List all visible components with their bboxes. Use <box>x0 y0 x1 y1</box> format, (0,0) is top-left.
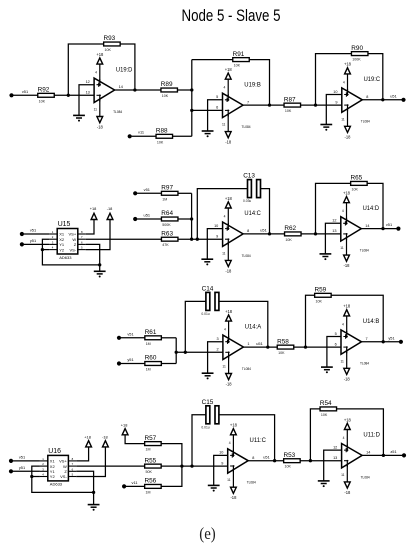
svg-text:10K: 10K <box>278 351 285 355</box>
wire feedback up to C15 <box>192 415 206 466</box>
junction R93/output <box>133 88 136 91</box>
-18 arrow U14:B <box>344 368 350 374</box>
junction R91/output <box>268 103 271 106</box>
svg-text:U16: U16 <box>48 448 61 455</box>
junction X2/Y2 tie U16 <box>30 475 33 478</box>
wire U19:C non-inverting input to ground <box>326 95 342 125</box>
svg-text:R56: R56 <box>145 478 157 485</box>
resistor R53 <box>284 452 301 469</box>
svg-text:8: 8 <box>247 229 249 233</box>
wire ground bus to ground <box>99 265 101 271</box>
terminal net v51 input R61 <box>117 331 134 340</box>
+18 arrow U14:A <box>226 315 232 321</box>
svg-text:U14:C: U14:C <box>244 210 261 217</box>
svg-text:TL084: TL084 <box>242 254 251 258</box>
wire U14:B output to terminal <box>362 341 401 343</box>
wire feedback up to C13 <box>197 189 247 240</box>
wire node to R91 <box>192 59 233 61</box>
terminal net v51 input row1 <box>9 89 28 97</box>
wire U19:D non-inverting input to ground <box>79 85 94 116</box>
wire v11 to R88 <box>132 135 156 137</box>
wire U14:A output to R58 <box>243 346 277 348</box>
wire U11:D output to terminal <box>362 454 404 456</box>
svg-text:14: 14 <box>365 224 369 228</box>
svg-text:1M: 1M <box>146 368 151 372</box>
svg-text:10K: 10K <box>285 465 292 469</box>
svg-text:4: 4 <box>224 86 226 90</box>
wire R91 to U19:B output <box>249 60 269 106</box>
svg-text:C14: C14 <box>202 285 214 292</box>
svg-text:0.01u: 0.01u <box>201 312 209 316</box>
svg-text:10: 10 <box>333 90 337 94</box>
op-amp U14:C <box>223 208 244 260</box>
svg-text:12: 12 <box>86 80 90 84</box>
terminal net v11 input R56 <box>122 480 137 489</box>
resistor R61 <box>145 329 162 346</box>
wire R88 to node <box>173 135 192 137</box>
wire U15 Z to ground bus <box>86 244 100 265</box>
wire U16 VS+ to +18 <box>76 445 88 461</box>
+18 arrow U14:C <box>225 202 231 208</box>
svg-text:11: 11 <box>94 108 98 112</box>
resistor R97 <box>161 185 178 202</box>
svg-text:U19:C: U19:C <box>364 76 381 83</box>
ground at U19:C + input <box>320 125 332 131</box>
resistor R56 <box>145 478 162 495</box>
svg-text:9: 9 <box>221 461 223 465</box>
wire R92 to U19:D inverting input <box>54 94 94 96</box>
svg-text:Y2: Y2 <box>59 247 65 252</box>
op-amp U14:B pin numbers <box>335 322 368 363</box>
wire R90 to U19:C output <box>368 54 383 100</box>
svg-text:y51: y51 <box>19 465 25 470</box>
svg-text:-18: -18 <box>226 382 233 387</box>
svg-text:v11: v11 <box>132 480 138 485</box>
svg-text:7: 7 <box>366 337 368 341</box>
wire v51 to R97 <box>137 192 161 194</box>
resistor R55 <box>145 457 162 474</box>
svg-text:TL084: TL084 <box>361 120 370 124</box>
wire U15 X2 to ground bus <box>42 239 99 265</box>
svg-text:-18: -18 <box>102 434 108 439</box>
svg-text:9: 9 <box>335 100 337 104</box>
svg-text:50K: 50K <box>146 470 153 474</box>
wire R89 to node <box>178 89 192 91</box>
wire feedback up to C14 <box>185 301 206 352</box>
resistor R91 <box>233 51 250 68</box>
svg-text:7: 7 <box>247 100 249 104</box>
ground at U14:D + input <box>320 254 332 260</box>
junction feedback C13 <box>196 238 199 241</box>
svg-text:TL084: TL084 <box>360 249 369 253</box>
svg-text:R59: R59 <box>315 287 327 294</box>
svg-text:R53: R53 <box>284 452 296 459</box>
svg-text:4: 4 <box>342 209 344 213</box>
wire U19:B output to R87 <box>243 104 284 106</box>
svg-text:1M: 1M <box>146 490 151 494</box>
resistor R63 <box>161 230 178 247</box>
svg-text:11: 11 <box>222 123 226 127</box>
terminal net v51 input U16 X1 <box>9 455 25 464</box>
svg-text:U14:A: U14:A <box>245 323 262 330</box>
svg-text:9: 9 <box>216 235 218 239</box>
junction C15/output <box>273 459 276 462</box>
ground at U11:D + input <box>318 481 330 487</box>
svg-text:U19:B: U19:B <box>244 81 261 88</box>
svg-text:R87: R87 <box>284 96 296 103</box>
svg-text:11: 11 <box>341 117 345 121</box>
+18 arrow U19:D <box>97 58 103 64</box>
svg-text:VS-: VS- <box>60 474 67 479</box>
ground at U14:C + input <box>201 259 213 265</box>
wire U15 Y2 to ground bus <box>42 249 49 251</box>
op-amp U11:D <box>342 430 363 482</box>
resistor R59 <box>315 287 332 304</box>
svg-text:U11:C: U11:C <box>250 437 267 444</box>
capacitor C14 <box>201 285 219 316</box>
wire R65 to U14:D output <box>367 183 383 228</box>
svg-text:3: 3 <box>216 337 218 341</box>
+18 arrow U11:C <box>231 429 237 435</box>
op-amp U19:D <box>94 64 115 116</box>
junction R53/R54 feedback <box>309 459 312 462</box>
+18 supply arrow U15 <box>91 213 97 219</box>
svg-text:TL084: TL084 <box>361 475 370 479</box>
-18 arrow U19:D <box>97 117 103 123</box>
svg-text:v11: v11 <box>138 130 144 135</box>
junction R87/R90 feedback <box>314 103 317 106</box>
svg-text:1M: 1M <box>162 197 167 201</box>
svg-text:500K: 500K <box>162 223 171 227</box>
wire U14:C non-inverting input to ground <box>207 229 222 260</box>
op-amp U19:B <box>223 79 244 131</box>
-18 arrow U19:B <box>225 132 231 138</box>
svg-text:14: 14 <box>119 85 123 89</box>
terminal net v51 input R97 <box>133 187 150 196</box>
+18 supply arrow R57 <box>122 429 128 435</box>
resistor R92 <box>38 87 55 104</box>
wire R55 to U11:C inverting input <box>161 465 228 467</box>
-18 arrow U14:A <box>226 374 232 380</box>
wire U16 Y2 to ground bus <box>32 476 40 478</box>
svg-text:+18: +18 <box>225 309 233 314</box>
svg-text:1M: 1M <box>146 448 151 452</box>
wire U16 VS- to -18 <box>76 445 105 477</box>
wire y51 to R60 <box>121 363 145 365</box>
svg-text:4: 4 <box>224 214 226 218</box>
svg-text:1M: 1M <box>146 342 151 346</box>
svg-text:R63: R63 <box>161 230 173 237</box>
svg-text:U15: U15 <box>58 221 71 228</box>
ground of U15 <box>94 271 106 277</box>
wire v51 to R92 <box>13 94 37 96</box>
wire C15 to U11:C output <box>219 415 275 461</box>
wire U19:B non-inverting input to ground <box>208 100 223 131</box>
junction R62/R65 feedback <box>314 232 317 235</box>
wire feedback up to R90 <box>316 54 352 106</box>
svg-text:12: 12 <box>332 219 336 223</box>
multiplier IC U16 (AD633) <box>40 448 76 487</box>
svg-text:5: 5 <box>216 95 218 99</box>
svg-text:R54: R54 <box>320 400 332 407</box>
wire U14:D non-inverting input to ground <box>325 223 340 254</box>
svg-text:10K: 10K <box>352 187 359 191</box>
svg-text:+18: +18 <box>225 67 233 72</box>
resistor R57 <box>145 435 162 452</box>
svg-text:v51: v51 <box>22 89 28 94</box>
svg-text:4: 4 <box>342 322 344 326</box>
svg-text:R91: R91 <box>233 51 245 58</box>
svg-text:R92: R92 <box>38 87 50 94</box>
wire u51 to R64 <box>137 218 161 220</box>
svg-text:-18: -18 <box>344 490 351 495</box>
svg-text:11: 11 <box>341 473 345 477</box>
svg-text:TL084: TL084 <box>242 367 251 371</box>
-18 arrow U14:C <box>225 260 231 266</box>
svg-text:6: 6 <box>335 342 337 346</box>
svg-text:U14:B: U14:B <box>363 318 380 325</box>
wire R97 to node <box>178 192 192 194</box>
resistor R64 <box>161 210 178 227</box>
svg-text:-18: -18 <box>97 125 104 130</box>
svg-text:u51: u51 <box>144 213 151 218</box>
resistor R54 <box>320 400 337 417</box>
ground of U16 <box>88 505 100 511</box>
terminal net y51 output row3 <box>388 335 403 344</box>
svg-text:Node 5 - Slave 5: Node 5 - Slave 5 <box>182 7 281 25</box>
wire U15 VS+ to +18 <box>86 218 94 235</box>
wire U19:C output to terminal <box>362 99 403 101</box>
terminal net y51 input R60 <box>117 357 134 366</box>
wire U15 W to R63 <box>86 238 162 240</box>
svg-text:u51: u51 <box>256 341 263 346</box>
junction R89/node line <box>190 88 193 91</box>
wire U14:C output to R62 <box>243 233 284 235</box>
ground at U19:B + input <box>202 131 214 137</box>
-18 supply arrow U15 <box>107 213 113 219</box>
svg-text:v51: v51 <box>127 331 133 336</box>
wire ground bus to ground U16 <box>93 492 95 504</box>
svg-text:AD633: AD633 <box>59 255 72 260</box>
svg-text:+18: +18 <box>121 422 128 427</box>
junction R54/output <box>382 454 385 457</box>
junction R63/input node <box>190 238 193 241</box>
svg-text:4: 4 <box>343 436 345 440</box>
resistor R89 <box>161 81 178 98</box>
svg-text:+18: +18 <box>90 206 97 211</box>
svg-text:y51: y51 <box>127 357 133 362</box>
-18 arrow U19:C <box>345 126 351 132</box>
wire R58 to U14:B inverting input <box>294 346 341 348</box>
wire C14 to U14:A output <box>219 301 268 347</box>
svg-text:TL084: TL084 <box>247 481 256 485</box>
op-amp U19:B pin numbers <box>216 86 249 127</box>
svg-text:11: 11 <box>227 478 231 482</box>
wire vertical node line row1 <box>191 60 193 137</box>
+18 supply arrow U16 <box>86 441 92 447</box>
junction node/inverting input row3 <box>175 351 178 354</box>
ground at U11:C + input <box>208 485 220 491</box>
terminal net y51 input U16 Y1 <box>9 465 25 474</box>
wire R53 to U11:D inverting input <box>300 460 341 462</box>
wire R59 to U14:B output <box>331 295 383 342</box>
svg-text:4: 4 <box>95 71 97 75</box>
wire R54 to U11:D output <box>337 409 384 456</box>
svg-text:0.01u: 0.01u <box>201 425 209 429</box>
svg-text:u51: u51 <box>263 454 270 459</box>
svg-text:R58: R58 <box>277 338 289 345</box>
wire U16 Z to ground bus <box>76 471 93 492</box>
terminal net v51 output row2 <box>386 222 401 231</box>
resistor R65 <box>351 175 368 192</box>
op-amp U11:C <box>228 435 249 487</box>
svg-text:5: 5 <box>335 332 337 336</box>
resistor R88 <box>156 128 173 145</box>
svg-text:U11:D: U11:D <box>363 432 380 439</box>
wire feedback up to R59 <box>306 295 315 347</box>
svg-text:10K: 10K <box>316 299 323 303</box>
wire +18 to R57 <box>125 435 145 444</box>
svg-text:+18: +18 <box>343 191 351 196</box>
wire v51 to R61 <box>121 337 145 339</box>
svg-text:v51: v51 <box>144 187 150 192</box>
-18 arrow U11:D <box>344 482 350 488</box>
svg-text:v51: v51 <box>19 455 25 460</box>
terminal net y51 input U15 Y1 <box>20 238 36 246</box>
svg-text:11: 11 <box>340 359 344 363</box>
svg-text:v51: v51 <box>386 222 392 227</box>
-18 arrow U11:C <box>231 487 237 493</box>
ground at U14:A + input <box>202 373 214 379</box>
svg-text:+18: +18 <box>225 196 233 201</box>
+18 arrow U11:D <box>344 423 350 429</box>
svg-text:11: 11 <box>222 365 226 369</box>
wire R61 to node <box>161 337 176 339</box>
svg-text:10K: 10K <box>234 64 241 68</box>
svg-text:y51: y51 <box>30 238 36 243</box>
svg-text:R55: R55 <box>145 457 157 464</box>
svg-text:R97: R97 <box>161 185 173 192</box>
wire U16 W to R55 <box>76 465 144 467</box>
multiplier IC U15 (AD633) <box>49 221 85 260</box>
wire U19:D output to R89 <box>115 89 161 91</box>
svg-text:13: 13 <box>332 229 336 233</box>
svg-text:-18: -18 <box>344 376 351 381</box>
wire U11:D non-inverting input to ground <box>324 450 342 481</box>
wire vertical node line row2 <box>191 193 193 239</box>
svg-text:47K: 47K <box>162 243 169 247</box>
svg-text:2: 2 <box>216 348 218 352</box>
terminal net z51 output row4 <box>390 449 406 458</box>
resistor R62 <box>284 225 301 242</box>
svg-text:-18: -18 <box>225 140 232 145</box>
op-amp U14:A <box>223 321 244 373</box>
svg-text:+18: +18 <box>344 62 352 67</box>
junction R59/output <box>382 340 385 343</box>
ground at U19:D + input <box>73 115 85 121</box>
ground at U14:B + input <box>321 367 333 373</box>
svg-text:+18: +18 <box>230 423 238 428</box>
svg-text:TL084: TL084 <box>113 110 122 114</box>
junction R58/R59 feedback <box>304 345 307 348</box>
svg-text:14: 14 <box>366 451 370 455</box>
wire y51 to U15 Y1 <box>24 243 50 245</box>
junction Z/ground bus U16 <box>92 491 95 494</box>
wire R63 to U14:C inverting input <box>178 238 223 240</box>
svg-text:z51: z51 <box>390 449 396 454</box>
svg-text:+18: +18 <box>96 52 104 57</box>
wire R57 to node <box>161 444 182 467</box>
svg-text:10K: 10K <box>157 140 164 144</box>
svg-text:6: 6 <box>216 106 218 110</box>
junction R65/output <box>381 227 384 230</box>
wire vertical node line row3 <box>175 338 177 364</box>
terminal net v51 input U15 X1 <box>20 228 36 236</box>
svg-text:10: 10 <box>214 224 218 228</box>
resistor R60 <box>145 355 162 372</box>
svg-text:AD633: AD633 <box>50 482 63 487</box>
svg-text:v51: v51 <box>30 228 36 233</box>
svg-text:-18: -18 <box>107 206 113 211</box>
svg-text:8: 8 <box>366 95 368 99</box>
svg-text:C15: C15 <box>202 399 214 406</box>
-18 arrow U14:D <box>344 255 350 261</box>
svg-text:R89: R89 <box>161 81 173 88</box>
svg-text:4: 4 <box>343 80 345 84</box>
op-amp U19:C <box>342 74 363 126</box>
svg-text:TL084: TL084 <box>242 125 251 129</box>
svg-text:y51: y51 <box>388 335 394 340</box>
junction C13/output <box>268 232 271 235</box>
-18 supply arrow U16 <box>103 441 109 447</box>
junction R90/output <box>381 98 384 101</box>
svg-text:100K: 100K <box>352 58 361 62</box>
wire U14:A non-inverting input to ground <box>208 342 223 374</box>
wire node to U19:B inverting input <box>192 109 223 111</box>
svg-text:+18: +18 <box>344 417 352 422</box>
+18 arrow U19:C <box>345 68 351 74</box>
svg-text:-18: -18 <box>230 495 237 500</box>
wire C13 to U14:C output <box>261 189 270 234</box>
junction feedback C15 <box>190 464 193 467</box>
op-amp U14:C pin numbers <box>214 214 249 255</box>
svg-text:4: 4 <box>229 441 231 445</box>
wire U11:C output to R53 <box>248 460 283 462</box>
wire R56 to node <box>161 466 182 486</box>
svg-text:C13: C13 <box>243 173 255 180</box>
wire v51 to U15 X1 <box>24 233 50 235</box>
svg-text:u51: u51 <box>260 228 267 233</box>
+18 arrow U14:B <box>344 310 350 316</box>
wire U15 VS- to -18 <box>86 218 110 250</box>
svg-text:10K: 10K <box>105 48 112 52</box>
capacitor C15 <box>201 399 219 430</box>
junction node/U19:B inverting input <box>190 109 193 112</box>
svg-text:-18: -18 <box>344 263 351 268</box>
junction Z/ground bus <box>98 263 101 266</box>
svg-text:TL084: TL084 <box>360 362 369 366</box>
wire U14:D output to terminal <box>361 228 398 230</box>
svg-text:(e): (e) <box>199 524 216 543</box>
svg-text:u51: u51 <box>390 93 397 98</box>
wire U16 X2 to ground bus <box>32 466 94 492</box>
terminal net u51 output row1 <box>390 93 405 102</box>
svg-text:10: 10 <box>219 451 223 455</box>
svg-text:10K: 10K <box>321 413 328 417</box>
svg-text:R62: R62 <box>284 225 296 232</box>
svg-text:4: 4 <box>224 328 226 332</box>
svg-text:R64: R64 <box>161 210 173 217</box>
